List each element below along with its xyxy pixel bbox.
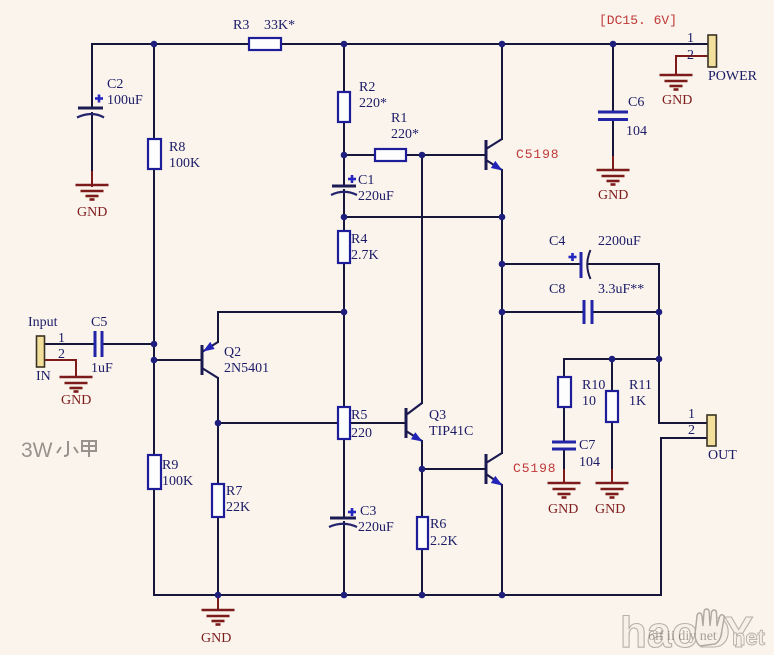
svg-text:C7: C7	[579, 438, 595, 453]
svg-text:220: 220	[351, 426, 372, 441]
wire top rail right	[281, 43, 707, 45]
svg-text:3W: 3W	[21, 439, 53, 462]
wire C1 bottom	[343, 190, 345, 217]
wire row 359	[564, 358, 659, 360]
svg-text:net: net	[732, 625, 766, 650]
svg-text:1: 1	[687, 31, 694, 46]
wire C2 to ground	[91, 113, 93, 173]
node rail C3	[341, 592, 348, 599]
wire R7 top	[217, 423, 219, 484]
node Q1 collector	[499, 41, 506, 48]
wire C1 top	[343, 155, 345, 185]
svg-text:R5: R5	[351, 408, 367, 423]
ground input	[60, 377, 93, 392]
svg-text:R3: R3	[233, 18, 249, 33]
transistor Q4 C5198 bottom	[486, 453, 503, 486]
wire C4 right	[589, 263, 659, 265]
svg-text:2N5401: 2N5401	[224, 361, 269, 376]
title 3W xiaojia	[21, 439, 96, 462]
svg-text:C2: C2	[107, 77, 123, 92]
svg-text:R2: R2	[359, 80, 375, 95]
svg-text:TIP41C: TIP41C	[429, 424, 473, 439]
svg-text:Q3: Q3	[429, 408, 446, 423]
wire R6 top	[421, 469, 423, 517]
svg-text:R8: R8	[169, 140, 185, 155]
wire Q3 emitter to Q4 base	[422, 468, 486, 470]
wire Q2 collector to Q3 base	[218, 422, 406, 424]
wire R10 to C7	[563, 407, 565, 442]
wire R2 top	[343, 44, 345, 92]
wire R5 to C3	[343, 439, 345, 518]
svg-text:100K: 100K	[162, 474, 193, 489]
resistor R6	[417, 517, 428, 549]
ground C7	[548, 483, 581, 498]
svg-text:Input: Input	[28, 315, 58, 330]
capacitor C3	[329, 508, 357, 527]
resistor R11	[606, 391, 618, 422]
wire R2 bottom	[343, 122, 345, 155]
svg-text:C1: C1	[358, 173, 374, 188]
wire C2 drop	[91, 44, 93, 108]
svg-text:6if ii diy net: 6if ii diy net	[648, 629, 717, 644]
svg-text:GND: GND	[77, 205, 107, 220]
node C8 tap	[499, 309, 506, 316]
node C1 bottom	[341, 214, 348, 221]
svg-text:2: 2	[688, 423, 695, 438]
svg-text:220uF: 220uF	[358, 189, 394, 204]
wire Q2 base	[154, 359, 202, 361]
svg-text:POWER: POWER	[708, 69, 758, 84]
svg-text:C5198: C5198	[513, 461, 557, 476]
connector OUT	[707, 415, 716, 446]
capacitor C6	[598, 112, 628, 120]
svg-text:104: 104	[579, 455, 600, 470]
resistor R10	[558, 377, 571, 407]
wire R4 top	[343, 217, 345, 231]
connector POWER	[708, 35, 717, 67]
svg-text:2.7K: 2.7K	[351, 248, 379, 263]
wire C8 right	[592, 311, 659, 313]
wire Q4 emitter down	[501, 485, 503, 595]
svg-text:104: 104	[626, 124, 647, 139]
ground C2	[76, 185, 109, 200]
svg-text:100K: 100K	[169, 156, 200, 171]
transistor Q2	[202, 342, 218, 378]
svg-text:C5: C5	[91, 315, 107, 330]
node Q2 collector	[215, 420, 222, 427]
wire Q2 collector down	[217, 378, 219, 423]
wire C6 top	[612, 44, 614, 112]
resistor R7	[212, 484, 224, 517]
wire Q1 collector up	[501, 44, 503, 139]
svg-text:1K: 1K	[629, 394, 646, 409]
node Q3 emitter	[419, 466, 426, 473]
transistor Q3 TIP41C	[406, 403, 423, 442]
wire input pin2 to ground	[45, 360, 76, 377]
svg-text:GND: GND	[595, 502, 625, 517]
svg-text:100uF: 100uF	[107, 93, 143, 108]
wire R11 top	[611, 359, 613, 391]
wire input pin1	[45, 343, 95, 345]
resistor R4	[338, 231, 350, 263]
node rail Q4	[499, 592, 506, 599]
wire R1 right to Q1 base	[406, 154, 486, 156]
capacitor C1	[331, 175, 357, 195]
capacitor C4	[569, 250, 591, 279]
svg-text:[DC15. 6V]: [DC15. 6V]	[599, 13, 677, 28]
svg-text:Q2: Q2	[224, 345, 241, 360]
wire R4 bottom	[343, 263, 345, 312]
svg-text:R11: R11	[629, 378, 652, 393]
svg-text:3.3uF**: 3.3uF**	[598, 282, 644, 297]
svg-text:GND: GND	[662, 93, 692, 108]
resistor R9	[148, 455, 161, 489]
node R4 bottom	[341, 309, 348, 316]
capacitor C2	[77, 95, 104, 118]
node C5 out	[151, 341, 158, 348]
node rail gnd	[215, 592, 222, 599]
connector IN	[37, 336, 45, 367]
resistor R8	[148, 139, 161, 169]
svg-text:2: 2	[58, 347, 65, 362]
node R2 bottom	[341, 152, 348, 159]
wire R7 bottom	[217, 517, 219, 595]
svg-text:C8: C8	[549, 282, 565, 297]
wire R10 top	[563, 359, 565, 377]
wire C3 bottom	[343, 522, 345, 595]
svg-text:220*: 220*	[359, 96, 387, 111]
node R1 right	[419, 152, 426, 159]
svg-text:1: 1	[58, 331, 65, 346]
wire R5 top	[343, 312, 345, 407]
svg-text:2200uF: 2200uF	[598, 234, 641, 249]
svg-text:C3: C3	[360, 504, 376, 519]
node R2 top	[341, 41, 348, 48]
svg-text:OUT: OUT	[708, 448, 737, 463]
node Q2 base	[151, 357, 158, 364]
svg-text:GND: GND	[598, 188, 628, 203]
resistor R3	[249, 38, 281, 50]
capacitor C7	[552, 442, 576, 449]
node C8 right	[656, 309, 663, 316]
svg-text:C4: C4	[549, 234, 565, 249]
svg-text:R7: R7	[226, 484, 242, 499]
watermark haoDIY	[620, 608, 766, 655]
resistor R2	[338, 92, 350, 122]
svg-text:1: 1	[688, 407, 695, 422]
wire C4 left	[502, 263, 581, 265]
ground C6	[597, 170, 630, 185]
svg-text:R6: R6	[430, 517, 446, 532]
wire R6 bottom	[421, 549, 423, 595]
transistor Q1 C5198 top	[486, 139, 503, 171]
wire R8 top	[153, 44, 155, 139]
svg-text:GND: GND	[61, 393, 91, 408]
wire POWER pin2 to ground	[676, 56, 708, 75]
wire C8 left	[502, 311, 584, 313]
svg-text:22K: 22K	[226, 500, 250, 515]
svg-text:220*: 220*	[391, 127, 419, 142]
svg-text:2.2K: 2.2K	[430, 534, 458, 549]
node C4 tap	[499, 261, 506, 268]
wire C7 to ground	[563, 449, 565, 471]
svg-text:C6: C6	[628, 95, 644, 110]
svg-text:IN: IN	[36, 369, 51, 384]
wire Q2 emitter up	[218, 312, 344, 342]
svg-text:GND: GND	[548, 502, 578, 517]
wire node row 217	[344, 216, 502, 218]
wire top rail left	[92, 43, 249, 45]
wire output node vertical	[658, 264, 660, 423]
svg-text:1uF: 1uF	[91, 361, 113, 376]
wire R11 to ground	[611, 422, 613, 471]
svg-text:10: 10	[582, 394, 596, 409]
wire OUT pin2 down	[661, 438, 707, 595]
wire Q3 emitter down	[421, 441, 423, 469]
node row217 right	[499, 214, 506, 221]
wire R1 node down to Q3 collector	[421, 155, 423, 403]
wire main ground stem	[217, 595, 219, 610]
ground POWER	[660, 75, 693, 90]
svg-text:2: 2	[687, 48, 694, 63]
svg-text:GND: GND	[201, 631, 231, 646]
wire C5 to node	[102, 343, 154, 345]
wire R1 left	[344, 154, 375, 156]
wire OUT pin1	[659, 422, 707, 424]
svg-text:R4: R4	[351, 232, 367, 247]
node C6 top	[610, 41, 617, 48]
svg-text:R10: R10	[582, 378, 605, 393]
resistor R5	[338, 407, 350, 439]
node rail R6	[419, 592, 426, 599]
wire bottom rail	[154, 594, 661, 596]
node out right	[656, 356, 663, 363]
wire C6 to ground	[612, 120, 614, 158]
wire Q1 emitter down to Q4 collector	[501, 170, 503, 453]
node R11 top	[609, 356, 616, 363]
svg-text:R9: R9	[162, 458, 178, 473]
resistor R1	[375, 149, 406, 161]
svg-text:C5198: C5198	[516, 147, 560, 162]
svg-text:220uF: 220uF	[358, 520, 394, 535]
capacitor C5	[95, 331, 102, 357]
wire R8 to input node	[153, 169, 155, 455]
svg-text:R1: R1	[391, 111, 407, 126]
ground main	[202, 610, 235, 625]
node R8 top	[151, 41, 158, 48]
capacitor C8	[584, 300, 592, 324]
ground R11	[596, 483, 629, 498]
wire R9 bottom	[153, 489, 155, 595]
svg-text:33K*: 33K*	[264, 18, 295, 33]
